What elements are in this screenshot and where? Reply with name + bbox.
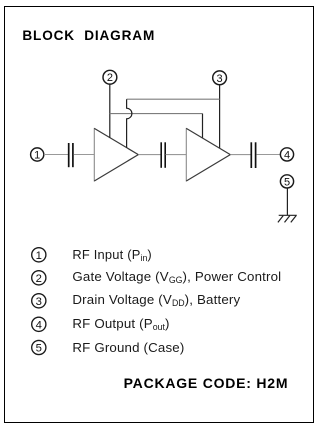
- wire C1 to amp1: [74, 154, 95, 156]
- wire input to C1: [44, 154, 68, 156]
- svg-text:3: 3: [36, 296, 42, 308]
- svg-text:4: 4: [284, 149, 290, 161]
- wire VDD branch vertical with hop over VGG wire: [127, 99, 132, 148]
- svg-text:4: 4: [36, 319, 42, 331]
- wire circle3 down to amp2 drain: [219, 85, 221, 149]
- svg-text:5: 5: [36, 343, 42, 355]
- node circle 3 (VDD): [213, 71, 227, 85]
- wire circle2 down to amp1 gate: [109, 84, 111, 138]
- capacitor C3: [250, 142, 252, 168]
- node circle 5 (RF ground): [280, 175, 293, 188]
- wire C2 to amp2: [166, 154, 187, 156]
- legend pin circle 5: [32, 340, 46, 354]
- svg-text:5: 5: [284, 176, 290, 188]
- wire VGG branch horizontal to amp2: [110, 113, 203, 115]
- legend row 3: Drain Voltage: [72, 292, 240, 307]
- legend pin circle 1: [32, 248, 46, 355]
- legend row 1: RF Input: [72, 247, 151, 262]
- svg-text:2: 2: [107, 72, 113, 84]
- legend row 5: RF Ground: [72, 340, 184, 355]
- svg-text:2: 2: [36, 273, 42, 285]
- capacitor C2: [160, 142, 162, 168]
- op-amp stage 1 triangle: [93, 128, 95, 182]
- title BLOCK DIAGRAM: [22, 28, 155, 43]
- wire amp2 out to C3: [230, 154, 251, 156]
- node circle 4 (RF output): [280, 148, 293, 161]
- legend row 4: RF Output: [72, 316, 169, 331]
- package code: [124, 375, 289, 391]
- node circle 2 (VGG): [103, 70, 117, 84]
- legend pin circle 2: [32, 271, 46, 285]
- node circle 1 (RF input): [31, 148, 44, 161]
- wire circle5 down to ground: [286, 188, 288, 215]
- ground symbol: [278, 215, 297, 222]
- capacitor C1: [68, 143, 70, 167]
- wire VDD branch horizontal to left: [127, 98, 220, 100]
- legend row 2: Gate Voltage: [72, 269, 281, 284]
- op-amp stage 2 triangle: [185, 128, 187, 182]
- wire C3 to circle4: [256, 154, 280, 156]
- legend pin circle 3: [32, 294, 46, 308]
- svg-text:1: 1: [36, 250, 42, 262]
- svg-text:3: 3: [217, 73, 223, 85]
- wire VGG branch vertical down to amp2: [202, 114, 204, 139]
- wire amp1 out to C2: [138, 154, 161, 156]
- svg-text:1: 1: [34, 150, 40, 162]
- legend pin circle 4: [32, 317, 46, 331]
